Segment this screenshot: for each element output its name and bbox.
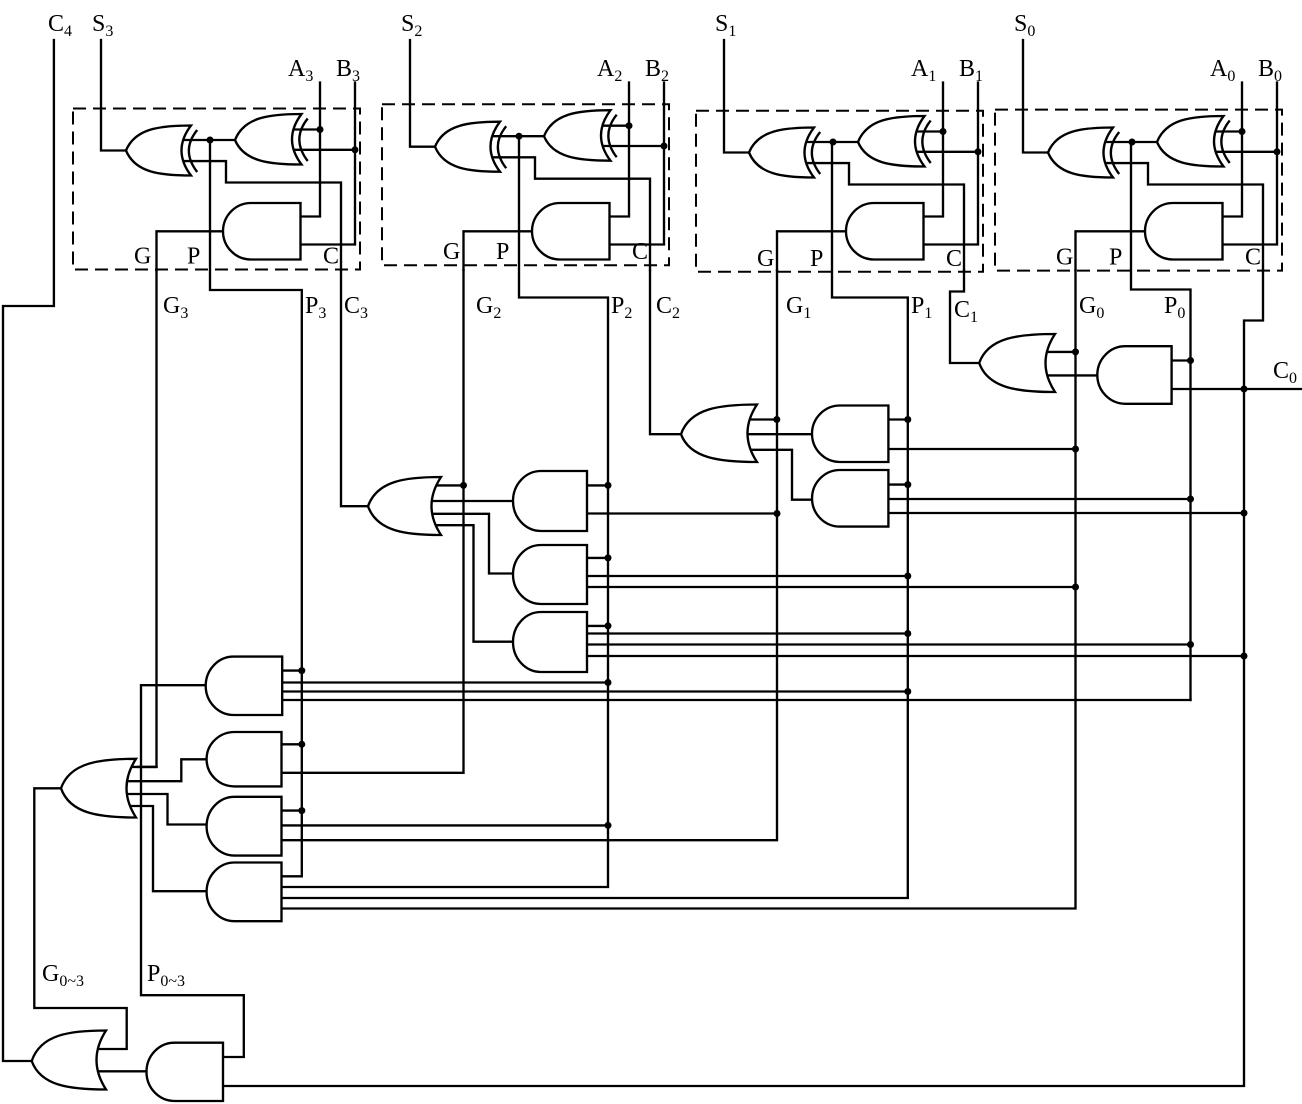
wire C0 feed from input to cell and down: [223, 270, 1263, 1086]
wire C3 AND3 input from P1: [585, 632, 908, 634]
svg-text:G2: G2: [476, 293, 501, 322]
wire G0~3 output path: [34, 788, 126, 1049]
wire C1 OR input from AND: [1041, 374, 1099, 376]
svg-text:G: G: [134, 244, 151, 270]
wire C3 from lookahead OR up to cell: [341, 270, 370, 506]
wire C into sum XOR (bit 1): [806, 163, 964, 270]
wire A2 vertical: [608, 83, 630, 217]
svg-text:P0~3: P0~3: [147, 961, 185, 990]
AND gate P1*G0: [812, 406, 888, 463]
OR gate C2: [681, 405, 757, 463]
wire C into sum XOR (bit 0): [1105, 163, 1263, 270]
AND gate P3*P2*G1: [207, 797, 282, 856]
wire XOR P2 input from B2: [602, 145, 665, 147]
svg-text:B0: B0: [1258, 56, 1282, 85]
wire C into sum XOR (bit 2): [492, 157, 650, 270]
svg-text:A3: A3: [288, 56, 313, 85]
XOR gate propagate P1: [858, 116, 931, 167]
svg-text:P3: P3: [305, 293, 326, 322]
wire C3 AND1 input from P2: [585, 484, 608, 486]
wire XOR P2 input from A2: [602, 125, 630, 127]
wire A1 vertical: [922, 83, 944, 217]
node P1 junction: [830, 139, 837, 146]
AND gate P3*P2*P1*G0: [207, 863, 282, 922]
XOR gate sum S3: [126, 126, 197, 176]
wire C2 AND2 input from P0: [886, 498, 1190, 500]
wire C3 AND1 input from G1: [585, 512, 777, 514]
node C0-C3 junction: [1241, 653, 1248, 660]
wire C3 AND3 input from C0: [585, 655, 1244, 657]
node P1-C2a junction: [904, 416, 911, 423]
node P3-C4a junction: [298, 667, 305, 674]
svg-text:S2: S2: [401, 11, 422, 40]
node A2 junction: [626, 122, 633, 129]
node A3 junction: [317, 126, 324, 133]
svg-text:G3: G3: [163, 293, 188, 322]
wire C3 OR input from AND1: [427, 500, 515, 502]
wire XOR P3 input from B3: [293, 149, 356, 151]
AND gate P0~3*C0: [146, 1043, 223, 1101]
svg-text:C1: C1: [954, 297, 978, 326]
wire C0 input from right edge: [1244, 388, 1302, 390]
node A0 junction: [1239, 128, 1246, 135]
node P0 junction: [1129, 139, 1136, 146]
svg-text:G: G: [443, 239, 460, 265]
svg-text:G0: G0: [1079, 293, 1104, 322]
wire C2 from lookahead OR up to cell: [650, 270, 683, 434]
wire B0 vertical: [1221, 83, 1278, 245]
wire C3 AND3 input from P2: [585, 625, 608, 627]
wire C2 AND2 input from P1: [886, 483, 907, 485]
OR gate group generate G0~3: [61, 759, 136, 818]
wire C2 OR input from G1: [743, 418, 777, 420]
wire C4 AND4 input from P3: [280, 875, 302, 877]
node B0 junction: [1274, 148, 1281, 155]
AND gate P0*C0: [1097, 346, 1171, 404]
wire C into sum XOR (bit 3): [183, 161, 341, 270]
wire P node to sum XOR input (bit 0): [1105, 141, 1159, 143]
wire XOR P0 input from A0: [1215, 130, 1243, 132]
AND gate P2*P1*P0*C0: [513, 612, 587, 672]
node P3-C4c junction: [298, 807, 305, 814]
wire C4 OR input jog from AND3: [122, 794, 209, 825]
AND gate group propagate P0~3: [206, 657, 283, 715]
node P0-C3 junction: [1187, 641, 1194, 648]
svg-text:S1: S1: [715, 11, 736, 40]
node G0-C2 junction: [1072, 446, 1079, 453]
wire A0 vertical: [1221, 83, 1243, 217]
svg-text:P0: P0: [1164, 293, 1185, 322]
wire C4 AND1 input from P0: [280, 699, 1190, 701]
AND gate P2*G1: [513, 471, 587, 531]
wire G output of AND (bit 2): [464, 231, 535, 270]
wire G0 down to C4 AND4: [282, 270, 1076, 909]
wire C2 OR input jog from AND2: [743, 450, 814, 500]
wire C2 OR input from AND1: [743, 433, 814, 435]
node P2-C3c junction: [605, 622, 612, 629]
wire C4 OR input jog from AND4: [122, 806, 209, 891]
svg-text:G: G: [1056, 245, 1073, 271]
node B1 junction: [975, 148, 982, 155]
node P2-C3a junction: [605, 482, 612, 489]
wire P1 from P node down with jog: [282, 142, 908, 898]
wire C2 AND1 input from G0: [886, 448, 1075, 450]
node P0-C2 junction: [1187, 496, 1194, 503]
wire C4 AND3 input from P2: [280, 824, 609, 826]
bit-2 full-adder cell dashed box: [382, 104, 669, 265]
node A1 junction: [940, 128, 947, 135]
svg-text:B2: B2: [645, 56, 669, 85]
wire C4 OR input from G3: [122, 766, 157, 768]
wire B1 vertical: [922, 83, 979, 245]
wire S3 to sum XOR output: [101, 40, 128, 151]
wire C4 AND2 input from P3: [280, 743, 302, 745]
svg-text:P1: P1: [911, 293, 932, 322]
OR gate C3: [368, 477, 441, 535]
svg-text:C: C: [632, 239, 648, 265]
wire C4 AND1 input from P3: [280, 669, 302, 671]
wire G output of AND (bit 1): [777, 231, 848, 270]
node P2-C4c junction: [605, 822, 612, 829]
wire C3 OR input jog from AND3: [427, 525, 515, 642]
svg-text:S3: S3: [92, 11, 113, 40]
wire S1 to sum XOR output: [724, 40, 751, 153]
svg-text:P: P: [810, 246, 823, 272]
wire G output of AND (bit 0): [1076, 231, 1148, 270]
svg-text:G: G: [757, 246, 774, 272]
node P3 junction: [207, 137, 214, 144]
node G2-C3 junction: [460, 482, 467, 489]
node P2 junction: [516, 133, 523, 140]
node G1-C2 junction: [773, 416, 780, 423]
svg-text:C4: C4: [48, 11, 72, 40]
svg-text:P: P: [187, 244, 200, 270]
wire G1 down to C4 AND3: [282, 270, 778, 840]
node P3-C4b junction: [298, 741, 305, 748]
svg-text:G0~3: G0~3: [42, 961, 84, 990]
wire final OR input from AND: [92, 1070, 149, 1072]
node G0-C1 junction: [1072, 348, 1079, 355]
wire P0~3 output path: [141, 685, 244, 1057]
node P1-C3c junction: [904, 630, 911, 637]
svg-text:C: C: [323, 244, 339, 270]
wire C4 output to top left: [3, 40, 54, 1061]
wire C2 AND1 input from P1: [886, 418, 907, 420]
node B2 junction: [661, 143, 668, 150]
svg-text:A1: A1: [911, 56, 936, 85]
node P2-C3b junction: [605, 554, 612, 561]
node P2-C4a junction: [605, 679, 612, 686]
XOR gate sum S0: [1048, 128, 1119, 178]
node B3 junction: [352, 146, 359, 153]
node C0-C2 junction: [1241, 510, 1248, 517]
svg-text:B3: B3: [336, 56, 360, 85]
svg-text:C: C: [946, 246, 962, 272]
node P1-C4a junction: [904, 688, 911, 695]
wire C4 AND3 input from P3: [280, 809, 302, 811]
wire C1 AND input from P0: [1170, 359, 1191, 361]
wire XOR P1 input from A1: [916, 130, 944, 132]
wire P3 from P node down with jog: [210, 140, 302, 876]
wire C3 AND2 input from P2: [585, 557, 608, 559]
wire C3 OR input jog from AND2: [427, 514, 515, 574]
svg-text:A0: A0: [1210, 56, 1235, 85]
XOR gate propagate P2: [544, 110, 617, 161]
wire G3 down to group-generate OR: [138, 270, 157, 767]
svg-text:C3: C3: [344, 293, 368, 322]
wire G output of AND (bit 3): [157, 231, 226, 270]
node G0-C3 junction: [1072, 584, 1079, 591]
wire C4 AND1 input from P2: [280, 681, 608, 683]
bit-0 full-adder cell dashed box: [995, 110, 1282, 271]
wire P node to sum XOR input (bit 3): [183, 139, 237, 141]
wire P node to sum XOR input (bit 1): [806, 141, 860, 143]
svg-text:A2: A2: [597, 56, 622, 85]
wire XOR P3 input from A3: [293, 128, 321, 130]
wire C3 AND2 input from P1: [585, 575, 908, 577]
XOR gate propagate P3: [235, 114, 308, 165]
wire C1 from lookahead OR up to cell: [950, 270, 981, 363]
node C0-C1 junction: [1241, 386, 1248, 393]
svg-text:P: P: [1109, 245, 1122, 271]
node P1-C2b junction: [904, 481, 911, 488]
wire C3 AND2 input from G0: [585, 586, 1076, 588]
svg-text:P2: P2: [611, 293, 632, 322]
AND gate generate G3: [223, 203, 301, 260]
wire C1 OR input from G0: [1041, 351, 1076, 353]
wire C4 OR input jog from AND2: [122, 759, 209, 781]
AND gate generate G1: [846, 203, 924, 260]
OR gate C4 output: [32, 1031, 106, 1090]
wire C3 AND3 input from P0: [585, 643, 1191, 645]
wire P node to sum XOR input (bit 2): [492, 135, 546, 137]
bit-1 full-adder cell dashed box: [696, 111, 983, 272]
AND gate P3*G2: [207, 732, 282, 786]
wire C3 OR input from G2: [427, 484, 464, 486]
AND gate P2*P1*G0: [513, 545, 587, 604]
XOR gate propagate P0: [1157, 116, 1230, 167]
wire C1 AND input from C0: [1170, 388, 1244, 390]
wire P0 from P node down with jog: [1131, 142, 1191, 700]
wire S0 to sum XOR output: [1023, 40, 1050, 153]
wire XOR P1 input from B1: [916, 151, 979, 153]
wire XOR P0 input from B0: [1215, 151, 1278, 153]
wire S2 to sum XOR output: [410, 40, 437, 147]
node P0-C1 junction: [1187, 357, 1194, 364]
wire A3 vertical: [299, 83, 321, 217]
wire B2 vertical: [608, 83, 665, 245]
svg-text:C: C: [1245, 245, 1261, 271]
AND gate P1*P0*C0: [812, 470, 888, 527]
wire P2 from P node down with jog: [282, 136, 609, 887]
wire C4 AND1 input from P1: [280, 690, 908, 692]
bit-3 full-adder cell dashed box: [73, 109, 360, 270]
svg-text:S0: S0: [1014, 11, 1035, 40]
svg-text:B1: B1: [959, 56, 983, 85]
node P1-C3b junction: [904, 573, 911, 580]
svg-text:C2: C2: [656, 293, 680, 322]
svg-text:P: P: [496, 239, 509, 265]
wire B3 vertical: [299, 83, 356, 245]
XOR gate sum S1: [749, 128, 820, 178]
AND gate generate G0: [1145, 203, 1222, 260]
svg-text:G1: G1: [786, 293, 811, 322]
node G1-C3 junction: [774, 510, 781, 517]
svg-text:C0: C0: [1273, 358, 1297, 387]
AND gate generate G2: [532, 203, 610, 260]
wire C2 AND2 input from C0: [886, 512, 1244, 514]
OR gate C1: [979, 334, 1055, 392]
wire G2 down to C4 AND2: [282, 270, 464, 773]
XOR gate sum S2: [435, 122, 506, 172]
